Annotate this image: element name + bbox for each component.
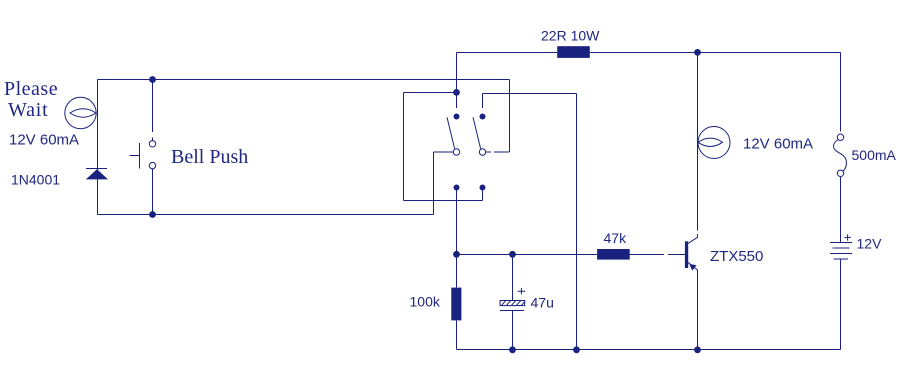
wire fuse to battery (840, 177, 842, 242)
diode 1N4001 cathode bar (86, 167, 107, 169)
wire relay left common horizontal (434, 151, 453, 153)
relay left arm (447, 117, 455, 148)
wire relay box left (403, 93, 405, 201)
wire base node to 100k top (456, 255, 458, 288)
junction capacitor ground (509, 346, 516, 353)
transistor ZTX550 base bar (685, 241, 688, 268)
junction relay top (453, 89, 460, 96)
relay contact upper-right dot (480, 114, 486, 120)
wire top rail to 22R (457, 52, 558, 54)
resistor 47k body (597, 249, 630, 260)
wire 22R to right corner (590, 52, 841, 54)
resistor 100k body (451, 288, 461, 321)
lamp Please Wait circle (65, 97, 96, 128)
junction lamp top (694, 49, 701, 56)
wire to relay right common (486, 151, 510, 153)
fuse S element (834, 140, 847, 172)
wire emitter vertical (697, 270, 699, 350)
wire left lower contact down to base node (456, 188, 458, 255)
svg-text:Please: Please (4, 78, 58, 100)
svg-text:ZTX550: ZTX550 (710, 248, 763, 265)
wire lamp collector vertical (697, 53, 699, 238)
relay contact lower-right dot (480, 185, 486, 191)
lamp 12V 60mA right lens (698, 138, 723, 146)
fuse bottom terminal (837, 170, 843, 176)
relay right common circle (479, 149, 485, 155)
lamp 12V 60mA right circle (698, 127, 730, 159)
svg-text:22R 10W: 22R 10W (541, 28, 600, 44)
svg-text:47u: 47u (531, 295, 554, 311)
wire relay box top (404, 92, 457, 94)
wire battery to ground rail (840, 259, 842, 350)
wire relay right lower contact drop (482, 188, 484, 201)
wire capacitor top lead (512, 255, 514, 301)
wire right contact feed horizontal (483, 93, 577, 95)
lamp Please Wait lens (70, 109, 96, 117)
wire bottom-left rail (98, 214, 434, 216)
wire ground rail (457, 349, 841, 351)
relay right arm (473, 117, 481, 148)
svg-text:1N4001: 1N4001 (11, 171, 60, 187)
resistor 22R 10W body (557, 46, 590, 58)
fuse top terminal (837, 134, 843, 140)
battery plate 2 short (832, 247, 849, 249)
battery plus sign (844, 234, 850, 240)
wire capacitor bottom lead (512, 310, 514, 349)
relay contact upper-left dot (454, 114, 460, 120)
wire stub above left upper contact (456, 93, 458, 109)
wire left riser to relay left common (433, 152, 435, 215)
svg-text:100k: 100k (410, 294, 441, 310)
diode 1N4001 triangle (86, 169, 108, 179)
svg-text:12V 60mA: 12V 60mA (743, 135, 813, 152)
battery plate 1 long (830, 241, 852, 243)
bell push top terminal (149, 141, 155, 147)
svg-text:12V 60mA: 12V 60mA (9, 131, 79, 148)
transistor emitter arrow (689, 264, 696, 271)
battery plate 3 long (830, 253, 852, 255)
wire left vertical rail (97, 80, 99, 215)
transistor collector lead (688, 237, 697, 243)
bell push actuator (130, 143, 140, 169)
wire top-left rail (98, 79, 510, 81)
wire mid vertical to ground (576, 94, 578, 350)
wire base run (457, 254, 685, 256)
svg-text:Wait: Wait (8, 99, 48, 121)
junction bell push top (149, 76, 156, 83)
wire 100k bottom to ground rail (456, 320, 458, 349)
svg-text:12V: 12V (857, 236, 883, 252)
wire bell push top (152, 80, 154, 141)
wire bell push bottom (152, 169, 154, 215)
wire 22R rail start down to relay junction (456, 53, 458, 93)
transistor emitter lead (688, 262, 698, 270)
capacitor 47u negative plate (500, 309, 524, 311)
svg-text:47k: 47k (604, 230, 628, 246)
wire right rail top (840, 53, 842, 132)
relay left common circle (453, 149, 459, 155)
junction bell push bottom (149, 211, 156, 218)
svg-text:Bell Push: Bell Push (171, 146, 248, 168)
capacitor 47u positive plate (500, 301, 525, 306)
wire relay box bottom (404, 200, 483, 202)
junction capacitor top (509, 251, 516, 258)
capacitor plus sign (518, 288, 526, 294)
junction base node (453, 251, 460, 258)
wire right end of top-left rail down (509, 80, 511, 153)
svg-text:500mA: 500mA (852, 147, 897, 163)
wire stub above right upper contact (482, 94, 484, 109)
junction emitter ground (694, 346, 701, 353)
bell push bottom terminal (149, 162, 155, 168)
junction mid vertical ground (573, 346, 580, 353)
relay contact lower-left dot (454, 185, 460, 191)
battery plate 4 short (834, 258, 848, 260)
